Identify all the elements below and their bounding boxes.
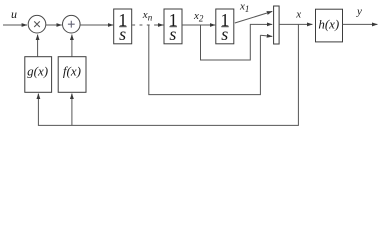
svg-text:x2: x2 xyxy=(193,10,204,24)
wire dashed continuation to integrator 2 xyxy=(132,24,161,26)
svg-text:x1: x1 xyxy=(239,1,249,15)
mux block xyxy=(274,6,280,44)
integrator block 1/s (first) xyxy=(114,9,132,44)
svg-text:x: x xyxy=(295,9,301,21)
summer circle xyxy=(63,15,81,33)
wire x2 feedforward loop to mux xyxy=(201,24,259,60)
svg-text:f(x): f(x) xyxy=(63,64,81,79)
g(x) block xyxy=(25,57,52,93)
wire f feedback branch xyxy=(71,94,73,125)
svg-text:s: s xyxy=(119,24,126,44)
wire mux output to h block xyxy=(279,23,312,25)
svg-text:xn: xn xyxy=(142,9,153,23)
svg-text:s: s xyxy=(221,24,228,44)
integrator block 1/s (second) xyxy=(164,9,182,44)
h(x) block xyxy=(316,9,343,42)
wire arrow into f block bottom xyxy=(71,94,73,96)
svg-text:h(x): h(x) xyxy=(318,17,339,32)
svg-text:y: y xyxy=(356,6,362,18)
wire y output arrow xyxy=(343,23,378,25)
wire xn feedforward loop to mux xyxy=(149,26,261,95)
f(x) block xyxy=(58,57,86,93)
svg-text:u: u xyxy=(11,7,17,21)
wire x1 diagonal from integrator 3 to mux xyxy=(235,11,272,23)
summer plus symbol xyxy=(68,21,75,28)
svg-text:g(x): g(x) xyxy=(27,64,48,79)
multiplier circle xyxy=(28,15,46,33)
svg-text:s: s xyxy=(169,24,176,44)
wire f output up to summer xyxy=(71,35,73,57)
wire u input arrow xyxy=(3,24,27,26)
wire integrator 2 to integrator 3 xyxy=(182,24,215,26)
multiplier x symbol xyxy=(34,21,40,27)
integrator block 1/s (third) xyxy=(216,9,234,44)
wire g output up to multiplier xyxy=(37,35,39,57)
wire multiplier to summer xyxy=(46,24,62,26)
wire x feedback drop and trunk to g block xyxy=(38,24,298,125)
wire arrow into g block bottom xyxy=(37,94,39,96)
wire summer to integrator 1 xyxy=(80,24,113,26)
